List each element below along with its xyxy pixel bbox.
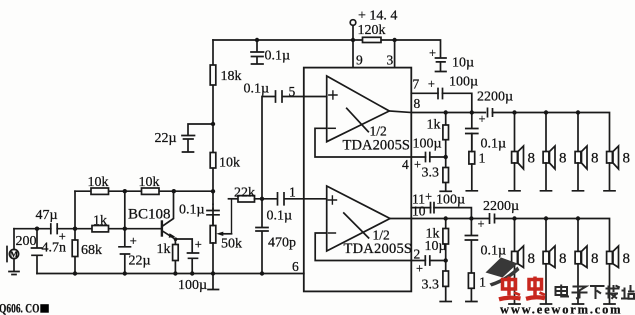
svg-text:+: +: [195, 238, 202, 252]
svg-text:8: 8: [528, 151, 536, 167]
svg-text:100µ: 100µ: [178, 278, 207, 293]
capacitor 10u pin2: [425, 256, 445, 265]
svg-text:120k: 120k: [358, 23, 386, 38]
svg-text:7: 7: [413, 77, 420, 92]
node LS5 tap: [512, 216, 516, 220]
svg-text:3.3: 3.3: [422, 166, 440, 181]
wire ground rail: [37, 273, 304, 275]
svg-text:+ 14. 4: + 14. 4: [358, 9, 397, 24]
glyph zi: [572, 287, 588, 299]
wire wiper to 22k: [229, 198, 239, 200]
svg-text:0.1µ: 0.1µ: [244, 82, 270, 97]
node 68k input junction: [73, 227, 77, 231]
svg-text:8: 8: [623, 151, 631, 167]
svg-text:100µ: 100µ: [436, 193, 465, 208]
svg-text:470p: 470p: [268, 236, 296, 251]
svg-text:5: 5: [289, 84, 296, 99]
node LS2 tap: [544, 110, 548, 114]
svg-text:10µ: 10µ: [452, 56, 474, 71]
node 1k ground junction: [173, 271, 177, 275]
glyph zai: [606, 285, 620, 299]
svg-text:10k: 10k: [88, 175, 109, 190]
wire upper speaker rail: [493, 113, 610, 152]
node base row crossing: [123, 227, 127, 231]
svg-text:2200µ: 2200µ: [477, 90, 513, 105]
ground mid: [208, 274, 219, 290]
ground 3.3 upper: [440, 190, 451, 192]
node 50k bottom on ground rail: [211, 271, 215, 275]
svg-text:9: 9: [356, 53, 363, 68]
IC box TDA2005S: [304, 68, 412, 292]
svg-text:Q606. CO: Q606. CO: [0, 300, 40, 315]
wire pin3: [394, 40, 396, 68]
potentiometer 50k: [210, 199, 231, 274]
node collector load junction: [211, 189, 215, 193]
svg-text:8: 8: [559, 151, 567, 167]
svg-text:18k: 18k: [221, 69, 242, 84]
watermark cap logo: [486, 258, 520, 287]
svg-text:50k: 50k: [221, 237, 242, 252]
wire pin7 to output: [443, 93, 472, 112]
svg-text:1k: 1k: [427, 118, 441, 133]
svg-text:1: 1: [479, 152, 486, 167]
node LS6 tap: [544, 216, 548, 220]
speaker LS7: [573, 219, 588, 305]
svg-text:200: 200: [16, 234, 37, 249]
wire pin2 stub: [411, 260, 425, 262]
node feedback B junction: [444, 258, 448, 262]
node pin3 junction: [392, 38, 396, 42]
resistor 1 zobel upper: [466, 134, 477, 191]
resistor 1k emitter: [173, 239, 179, 273]
speaker LS6: [541, 219, 556, 305]
svg-text:0.1µ: 0.1µ: [267, 209, 293, 224]
svg-text:1: 1: [479, 276, 486, 291]
svg-text:100µ: 100µ: [413, 137, 442, 152]
svg-text:0.1µ: 0.1µ: [265, 49, 291, 64]
resistor 120k: [363, 37, 382, 42]
node LS1 tap: [512, 110, 516, 114]
wire top supply rail: [213, 40, 441, 57]
svg-text:22k: 22k: [234, 186, 255, 201]
svg-text:+: +: [416, 262, 423, 276]
svg-text:2200µ: 2200µ: [483, 199, 519, 214]
wire pin4 stub: [411, 156, 425, 158]
node LS3 tap: [576, 110, 580, 114]
svg-text:1/2: 1/2: [370, 124, 387, 139]
svg-text:+: +: [425, 190, 432, 204]
microphone M: [7, 229, 19, 275]
wire pin10 output row: [411, 218, 489, 220]
capacitor 0.1u zobel upper: [466, 113, 478, 150]
op-amp U1b feedback to pin2: [315, 233, 411, 261]
node 22u ground junction: [123, 271, 127, 275]
op-amp U1b output: [390, 218, 411, 220]
node output B feedback tap: [444, 216, 448, 220]
node output B bootstrap tap: [469, 216, 473, 220]
pot 50k arrowhead: [216, 232, 223, 236]
node output A bootstrap tap: [470, 110, 474, 114]
node 68k ground junction: [73, 271, 77, 275]
speaker LS5: [509, 219, 524, 305]
svg-text:+: +: [478, 112, 485, 126]
node 18k-10k junction: [211, 122, 215, 126]
op-amp U1a output: [389, 111, 411, 113]
capacitor 4.7n: [32, 229, 43, 274]
svg-text:8: 8: [591, 251, 599, 267]
watermark chongchong red glyph 1: [499, 277, 521, 300]
node 10k-10k bias junction: [123, 189, 127, 193]
op-amp U1a feedback to pin4: [315, 128, 411, 157]
resistor 1 zobel lower: [466, 273, 477, 302]
capacitor 2200u lower: [490, 214, 495, 223]
svg-text:8: 8: [591, 151, 599, 167]
capacitor 22u upper: [182, 124, 213, 152]
node decoupling tap on supply rail: [255, 38, 259, 42]
svg-text:0.1µ: 0.1µ: [481, 137, 507, 152]
svg-text:+: +: [130, 234, 137, 248]
svg-text:6: 6: [292, 259, 299, 274]
svg-text:0.1µ: 0.1µ: [179, 203, 205, 218]
wire bias vertical left: [74, 191, 76, 229]
glyph dian: [556, 285, 570, 297]
wire pin11 row: [411, 207, 430, 209]
svg-text:+: +: [477, 217, 484, 231]
wire pin7 row: [411, 92, 438, 94]
glyph xia: [590, 286, 605, 299]
resistor 10k a: [91, 188, 109, 194]
wire pin8 output row: [411, 112, 485, 114]
capacitor 0.1u pin1: [278, 193, 304, 205]
capacitor 0.1u decoupling: [251, 40, 264, 64]
node collector junction: [172, 189, 176, 193]
capacitor 47u: [51, 224, 57, 234]
resistor 1k fb upper: [443, 113, 449, 158]
svg-text:+: +: [414, 158, 421, 172]
resistor 10k vertical: [210, 153, 216, 205]
op-amp U1a minus: [328, 127, 335, 129]
resistor 68k: [72, 229, 78, 274]
wire 22k to cap: [255, 198, 278, 200]
capacitor 10u supply: [436, 58, 447, 72]
capacitor 100u pin11: [431, 203, 435, 213]
wire pin9: [352, 40, 354, 68]
svg-text:68k: 68k: [81, 243, 102, 258]
resistor 3.3 lower: [443, 261, 449, 302]
speaker LS3: [573, 113, 588, 191]
svg-text:4: 4: [402, 157, 409, 172]
op-amp U1b minus: [329, 232, 336, 234]
op-amp U1b plus input: [304, 196, 337, 204]
speaker LS2: [541, 113, 556, 191]
capacitor 2200u upper: [488, 108, 493, 116]
svg-text:1k: 1k: [93, 214, 107, 229]
svg-text:TDA2005S: TDA2005S: [343, 138, 411, 154]
capacitor 0.1u zobel lower: [465, 219, 477, 274]
wire bias junction down: [124, 191, 126, 229]
op-amp U1b triangle: [327, 186, 390, 251]
wire pin11 to rail: [434, 208, 471, 219]
svg-text:10k: 10k: [219, 156, 240, 171]
capacitor 470p: [256, 199, 268, 274]
node volume signal junction: [260, 197, 264, 201]
capacitor 100u pin4: [426, 153, 446, 162]
svg-text:BC108: BC108: [128, 207, 171, 223]
op-amp U1b cross: [344, 213, 369, 238]
wire lower speaker rail: [495, 219, 610, 252]
svg-text:8: 8: [623, 251, 631, 267]
svg-text:+: +: [428, 77, 435, 91]
watermark www.eeworm.com: [500, 303, 622, 315]
wire pin5 column: [262, 97, 275, 199]
svg-text:10: 10: [412, 204, 426, 219]
svg-text:8: 8: [528, 251, 536, 267]
wire input row: [14, 228, 161, 230]
node feedback A junction: [444, 155, 448, 159]
svg-text:M: M: [10, 249, 18, 259]
svg-text:10k: 10k: [139, 175, 160, 190]
capacitor 22u lower: [119, 229, 131, 274]
speaker LS4: [604, 146, 619, 191]
node 100u ground junction: [190, 271, 194, 275]
glyph zhan: [621, 285, 635, 299]
capacitor 100u pin7: [438, 89, 443, 99]
capacitor 0.1u pin5: [276, 91, 304, 102]
svg-text:2: 2: [414, 247, 421, 262]
resistor 18k: [210, 40, 216, 153]
svg-text:0.1µ: 0.1µ: [481, 244, 507, 259]
node emitter junction: [174, 237, 178, 241]
watermark dianzi xiazaizhan glyphs: [556, 285, 635, 300]
svg-text:4.7n: 4.7n: [42, 241, 67, 256]
node 470p ground junction: [260, 271, 264, 275]
capacitor 100u emitter: [176, 239, 199, 274]
svg-text:22µ: 22µ: [129, 254, 151, 269]
capacitor 0.1u mid: [207, 205, 219, 226]
svg-text:+: +: [429, 46, 436, 60]
svg-text:47µ: 47µ: [36, 208, 58, 223]
svg-text:1: 1: [289, 185, 296, 200]
op-amp U1a plus input: [304, 91, 337, 99]
svg-text:TDA2005S: TDA2005S: [344, 241, 413, 257]
svg-text:www.eeworm.com: www.eeworm.com: [500, 303, 622, 315]
svg-text:100µ: 100µ: [449, 75, 478, 90]
resistor 3.3 upper: [443, 157, 449, 191]
op-amp U1a cross: [347, 108, 369, 131]
resistor 1k fb lower: [443, 219, 449, 261]
node output A feedback tap: [444, 110, 448, 114]
svg-text:1k: 1k: [157, 242, 171, 257]
svg-text:3: 3: [387, 53, 394, 68]
node input after mic: [35, 227, 39, 231]
node LS7 tap: [576, 216, 580, 220]
svg-text:3.3: 3.3: [422, 278, 440, 293]
speaker LS8: [604, 246, 619, 304]
speaker LS1: [509, 113, 524, 191]
transistor BC108: [162, 191, 176, 239]
svg-text:8: 8: [559, 251, 567, 267]
svg-text:10µ: 10µ: [425, 239, 447, 254]
node supply terminal junction: [351, 38, 355, 42]
svg-text:8: 8: [414, 96, 421, 111]
resistor 10k b: [142, 188, 160, 194]
resistor 1k base: [92, 226, 109, 232]
watermark chongchong red glyph 2: [526, 277, 545, 299]
supply terminal +14.4: [350, 20, 356, 40]
svg-text:22µ: 22µ: [155, 131, 177, 146]
ground 3.3 lower: [440, 301, 451, 303]
watermark Q606.CO: [0, 300, 49, 315]
wire 10k row: [75, 190, 213, 192]
resistor 22k: [238, 196, 255, 202]
op-amp U1a triangle: [327, 76, 390, 142]
